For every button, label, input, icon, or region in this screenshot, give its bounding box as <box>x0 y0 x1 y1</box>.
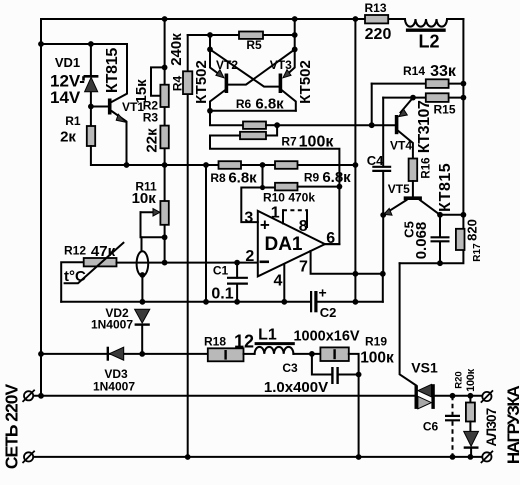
svg-text:1N4007: 1N4007 <box>93 380 135 394</box>
node VD2 bottom <box>139 351 145 357</box>
node VT1 emitter rail <box>124 162 130 168</box>
svg-text:R1: R1 <box>65 114 81 128</box>
node rail right <box>353 162 359 168</box>
svg-text:10к: 10к <box>132 190 157 207</box>
node R4 neutral <box>185 454 191 460</box>
svg-text:33к: 33к <box>430 63 457 80</box>
resistor R5 <box>239 32 263 39</box>
svg-text:820: 820 <box>465 219 480 241</box>
node pin7 longvert <box>353 271 359 277</box>
svg-text:КТ3107: КТ3107 <box>416 100 433 153</box>
svg-text:1: 1 <box>271 205 280 222</box>
svg-text:6: 6 <box>326 230 335 247</box>
node B <box>88 41 94 47</box>
resistor R12 thermistor <box>61 243 123 302</box>
svg-text:КТ815: КТ815 <box>437 163 454 212</box>
node C6 bottom <box>450 454 456 460</box>
svg-text:3: 3 <box>244 210 253 227</box>
svg-text:C2: C2 <box>320 305 337 320</box>
wire rail y165 resistors R8 R9 <box>219 161 242 169</box>
svg-text:+: + <box>260 216 270 235</box>
svg-text:R10 470k: R10 470k <box>263 191 315 205</box>
svg-text:R8: R8 <box>210 171 226 185</box>
transistor VT4 <box>395 98 413 159</box>
svg-text:8: 8 <box>299 218 308 235</box>
svg-text:R17: R17 <box>472 243 483 262</box>
svg-text:6.8к: 6.8к <box>228 170 257 187</box>
node C6 top <box>450 393 456 399</box>
node R5 left <box>207 32 213 38</box>
resistor R11 pot <box>160 201 168 225</box>
resistor R17 <box>456 229 465 250</box>
wire x206 vertical <box>205 165 207 302</box>
svg-text:100к: 100к <box>360 350 394 367</box>
node longvert bottom <box>353 299 359 305</box>
resistor R7 <box>210 125 339 244</box>
resistor R13 <box>365 15 388 23</box>
wire mid rail y302 <box>61 301 383 303</box>
wire R2R3 chain <box>164 19 166 165</box>
svg-text:VT2: VT2 <box>216 58 238 72</box>
svg-text:6.8к: 6.8к <box>322 169 351 186</box>
svg-text:R13: R13 <box>364 1 386 15</box>
node R10 left junction <box>260 185 265 190</box>
node pin7 right <box>380 271 386 277</box>
wire R16 bottom <box>412 181 414 196</box>
transistor VT3 <box>279 49 296 110</box>
resistor R6 <box>210 111 277 129</box>
svg-text:6.8к: 6.8к <box>255 96 284 113</box>
wire R14 R15 leads <box>372 84 464 98</box>
pin8 stub <box>306 210 308 227</box>
svg-text:VT5: VT5 <box>388 182 410 196</box>
resistor R4 <box>183 71 192 94</box>
wire VS1 gate <box>400 263 416 385</box>
wire pin2 row <box>117 262 258 264</box>
svg-text:C1: C1 <box>213 264 229 278</box>
node C1 bottom <box>234 299 240 305</box>
svg-text:C4: C4 <box>367 153 384 168</box>
node VT2 top <box>207 47 213 53</box>
node R15 border <box>461 95 467 101</box>
node R2 tap <box>162 65 168 71</box>
svg-text:100к: 100к <box>465 368 477 391</box>
svg-text:АЛ307: АЛ307 <box>484 408 499 446</box>
node collectors <box>207 108 213 114</box>
wire VD1 branch top <box>41 43 127 45</box>
wire top rail <box>41 18 463 20</box>
svg-text:СЕТЬ 220V: СЕТЬ 220V <box>2 384 22 470</box>
wire neutral row <box>33 456 482 458</box>
node C1 top <box>234 260 240 266</box>
svg-text:240к: 240к <box>168 33 185 66</box>
node C3 right <box>356 372 362 378</box>
capacitor C4 <box>372 98 391 274</box>
svg-text:R15: R15 <box>433 103 455 117</box>
terminal mains top <box>23 390 35 402</box>
svg-text:R18: R18 <box>204 335 226 349</box>
wire R14 down to base <box>371 84 373 126</box>
wire C2 right up <box>382 274 384 302</box>
svg-text:7: 7 <box>299 258 308 275</box>
resistor R9 <box>275 161 298 169</box>
svg-text:0.1: 0.1 <box>211 286 233 303</box>
svg-text:DA1: DA1 <box>264 234 302 255</box>
capacitor C2 <box>311 291 316 312</box>
svg-text:R12: R12 <box>64 244 86 258</box>
node VD3 left border <box>38 351 44 357</box>
terminal load top <box>481 390 493 402</box>
wire pin6 output <box>325 243 340 245</box>
transistor VT2 <box>210 49 228 110</box>
svg-text:R4: R4 <box>171 76 185 92</box>
svg-text:C3: C3 <box>282 361 298 375</box>
resistor R16 <box>409 159 418 182</box>
lamp HL <box>137 237 149 301</box>
node longvert top <box>353 16 359 22</box>
wire flipflop verticals <box>210 19 295 49</box>
svg-text:R3: R3 <box>143 111 159 125</box>
svg-text:0.068: 0.068 <box>413 222 430 260</box>
diode VD3 <box>108 347 124 361</box>
terminal mains bottom <box>23 451 35 463</box>
node R14 base <box>369 122 375 128</box>
wire cross coupling <box>210 49 295 86</box>
wire pin4 <box>283 264 285 302</box>
node border VT5 <box>461 212 467 218</box>
node R19 neutral <box>356 454 362 460</box>
resistor R20 <box>466 396 475 432</box>
diode VD2 <box>135 309 150 354</box>
node R11 bottom <box>162 234 168 240</box>
capacitor C6 dashed <box>445 396 460 457</box>
resistor R2 <box>160 85 168 107</box>
resistor R15 <box>426 93 449 102</box>
wire L1 to R19 <box>293 353 320 355</box>
svg-text:R7: R7 <box>281 135 297 149</box>
node C5 bottom <box>437 260 443 266</box>
svg-text:КТ815: КТ815 <box>104 48 121 94</box>
node R2 top rail <box>162 16 168 22</box>
svg-text:22к: 22к <box>144 128 161 153</box>
node pin4 bottom <box>281 299 287 305</box>
node VT5 collector <box>437 212 443 218</box>
capacitor C1 <box>227 263 248 302</box>
thyristor VS1 <box>415 384 435 409</box>
node VD1-base <box>88 104 94 110</box>
svg-text:R19: R19 <box>365 335 387 349</box>
svg-text:+: + <box>319 285 327 301</box>
node rail x206 <box>203 162 209 168</box>
wire long vertical <box>354 19 356 302</box>
resistor R18 <box>208 348 244 361</box>
resistor R14 <box>426 79 449 88</box>
pin1 stub <box>282 210 284 223</box>
svg-text:14V: 14V <box>50 88 81 107</box>
svg-text:R16: R16 <box>421 157 433 178</box>
wire R11 vertical <box>164 165 166 263</box>
wire R1 bottom to rail <box>91 146 356 165</box>
svg-text:VT4: VT4 <box>390 139 412 153</box>
wire left border <box>40 19 42 396</box>
wire collectors row <box>210 110 296 112</box>
svg-text:1000x16V: 1000x16V <box>293 329 359 345</box>
svg-text:C6: C6 <box>423 420 439 434</box>
LED HL1 <box>464 431 479 457</box>
svg-text:НАГРУЗКА: НАГРУЗКА <box>504 386 520 464</box>
node VT3 top <box>292 47 298 53</box>
wire R18 to L1 <box>244 353 255 355</box>
svg-text:R6: R6 <box>236 97 252 111</box>
svg-text:L1: L1 <box>258 327 277 344</box>
terminal load bottom <box>481 451 493 463</box>
node rail R8R9 <box>260 162 266 168</box>
svg-text:КТ502: КТ502 <box>193 60 210 104</box>
node R6 right <box>274 122 280 128</box>
svg-text:R20: R20 <box>454 371 465 388</box>
wire R4 vertical <box>187 35 189 457</box>
wire zener leads <box>90 44 92 126</box>
node x206 bottom <box>203 299 209 305</box>
svg-text:4: 4 <box>274 273 283 290</box>
svg-text:2: 2 <box>245 248 254 265</box>
inductor L2 <box>405 19 447 30</box>
resistor R3 <box>160 126 168 149</box>
svg-text:12: 12 <box>234 332 254 352</box>
svg-text:VT3: VT3 <box>270 58 292 72</box>
wire R11 wiper <box>141 209 165 238</box>
wire pin1-pin8 dashed <box>283 209 307 211</box>
svg-text:2к: 2к <box>60 129 76 146</box>
wire R19 right down <box>349 354 359 457</box>
svg-text:VD1: VD1 <box>55 55 80 70</box>
svg-text:t°C: t°C <box>64 268 86 285</box>
svg-text:47к: 47к <box>91 243 116 260</box>
resistor R1 <box>87 126 95 146</box>
diode VD1 zener <box>84 76 99 91</box>
svg-text:КТ502: КТ502 <box>297 60 314 104</box>
wire R5 row <box>188 34 295 36</box>
wire R2 wiper bracket <box>151 67 165 95</box>
wire pin3 bracket <box>241 188 262 223</box>
wire VT4 base row <box>277 124 395 126</box>
wire VD3 row <box>41 353 208 355</box>
resistor R10 <box>263 165 340 190</box>
node R11 pin2wire <box>162 260 168 266</box>
node VT4 emitter <box>410 95 416 101</box>
svg-text:220: 220 <box>365 26 392 43</box>
node R5 right <box>292 32 298 38</box>
node C3 left top <box>309 351 315 357</box>
node mains left <box>38 393 44 399</box>
node R3 rail <box>162 162 168 168</box>
svg-text:R9: R9 <box>304 171 320 185</box>
wire mains live row <box>33 395 482 397</box>
capacitor C5 <box>431 215 450 263</box>
svg-text:R14: R14 <box>403 64 425 78</box>
svg-text:VS1: VS1 <box>411 360 438 376</box>
node VT5 emitter <box>380 212 386 218</box>
op-amp DA1 <box>258 211 325 277</box>
node R20 top <box>468 393 474 399</box>
wire pin7 <box>311 251 383 274</box>
node top rail mid <box>292 16 298 22</box>
wire right border <box>400 19 464 263</box>
inductor L1 <box>255 344 295 354</box>
svg-text:1N4007: 1N4007 <box>91 318 133 332</box>
transistor VT5 <box>383 196 440 215</box>
svg-text:L2: L2 <box>418 32 439 52</box>
svg-text:100к: 100к <box>299 134 335 151</box>
node LED bottom <box>468 454 474 460</box>
node A <box>38 41 44 47</box>
transistor VT1 <box>108 44 127 165</box>
svg-text:R5: R5 <box>246 38 262 52</box>
wire VT5 collector to border <box>440 214 463 216</box>
node R14 border <box>461 81 467 87</box>
node R10 right <box>337 184 343 190</box>
capacitor C3 <box>312 354 359 384</box>
resistor R19 <box>320 347 348 361</box>
svg-text:1.0x400V: 1.0x400V <box>264 379 328 396</box>
node lamp bottom rail <box>140 299 146 305</box>
wire VT1 base <box>91 106 108 108</box>
